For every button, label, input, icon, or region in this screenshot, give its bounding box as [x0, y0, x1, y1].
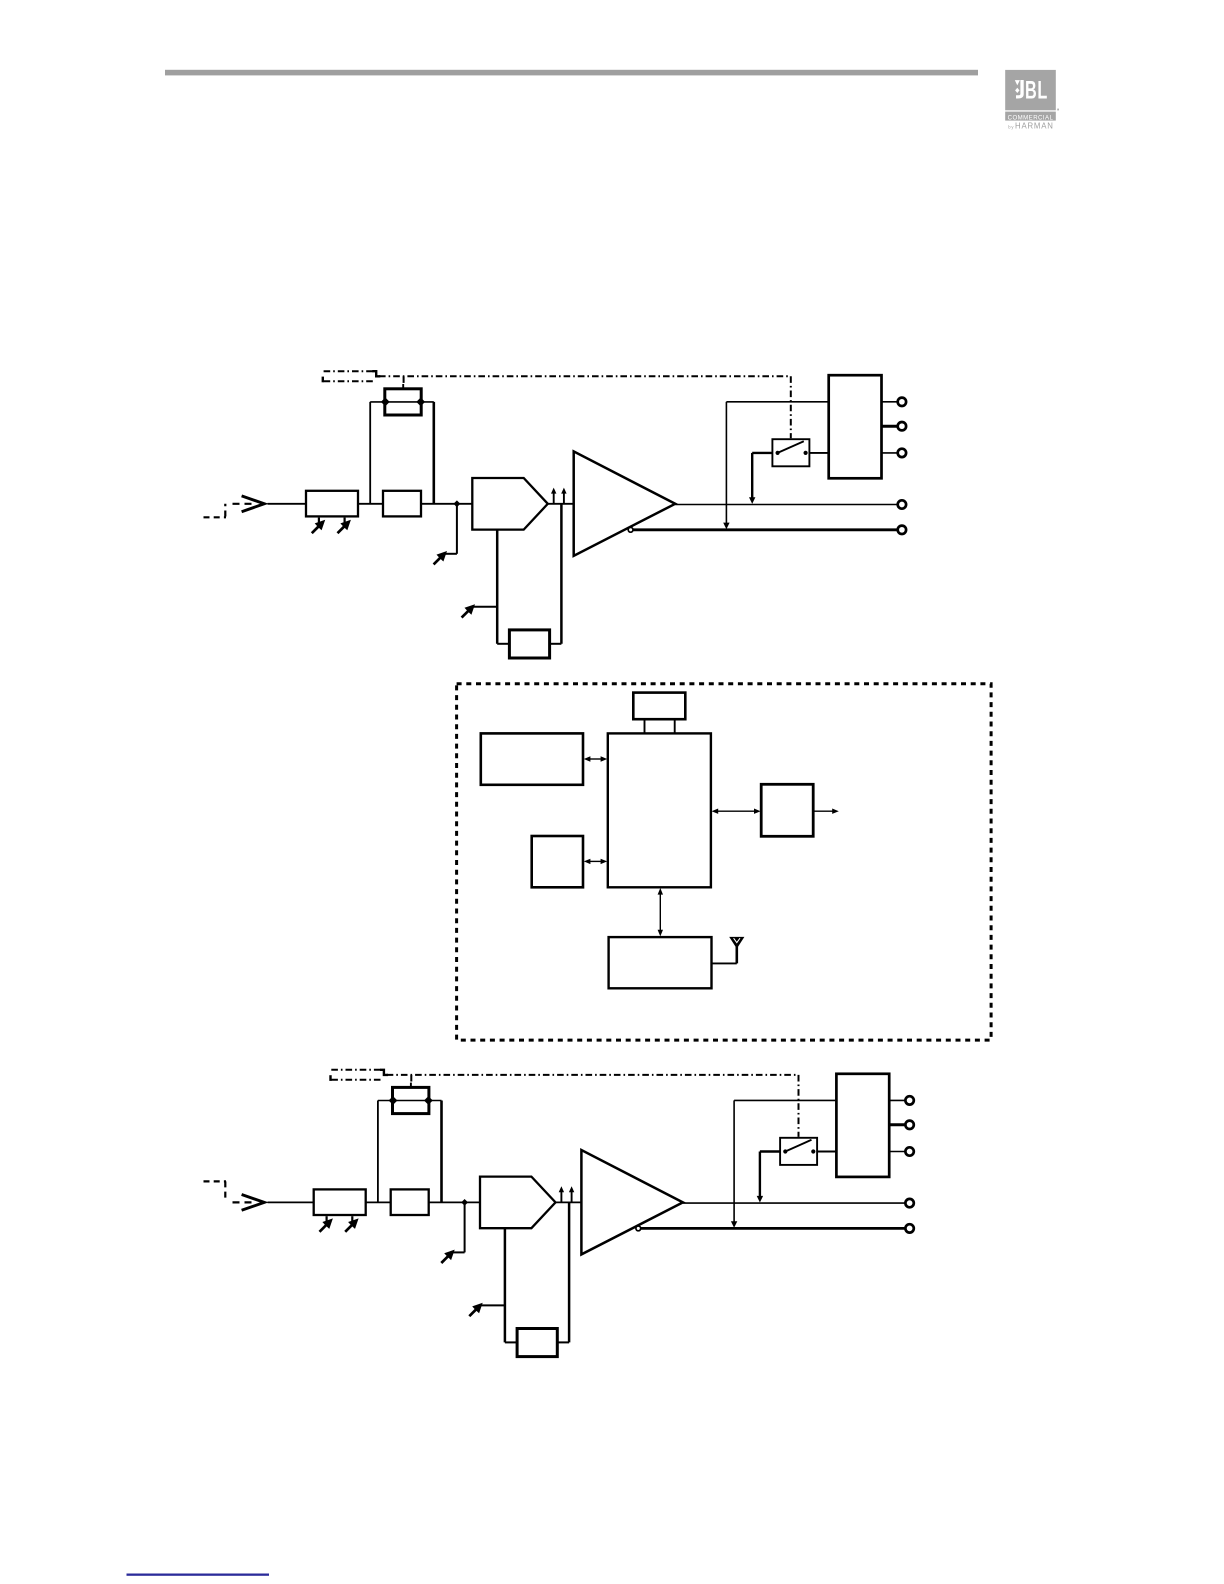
CH2 inverting output tap circle — [636, 1226, 641, 1231]
CH2 output terminal - circle — [905, 1224, 913, 1232]
JBL logo letter J — [1016, 80, 1024, 99]
memory bus arrow — [589, 758, 601, 760]
CH1 remote link loop bottom — [324, 380, 376, 382]
crystal box — [633, 693, 685, 720]
footer blue rule — [127, 1574, 270, 1576]
crystal wire right — [674, 719, 676, 733]
JBL logo square — [1005, 70, 1056, 110]
CH1 trim contact diamond left — [381, 398, 390, 407]
CH1 VCA bottom wire — [496, 530, 499, 644]
radio box — [609, 937, 712, 988]
CH1 junction dot — [454, 500, 461, 507]
eeprom box — [532, 836, 583, 887]
CH1 power amplifier triangle — [574, 451, 676, 555]
CH2 relay wire right — [817, 1151, 836, 1153]
eeprom bus arrow — [589, 860, 601, 862]
CH1 relay switch box — [772, 439, 809, 466]
main processor box — [608, 733, 711, 887]
CH1 wire filter-to-vca — [421, 503, 472, 505]
CH2 remote link branch to pot — [410, 1075, 412, 1083]
JBL logo exclamation dot — [1015, 88, 1019, 93]
CH1 bridge wire arrowhead — [723, 523, 729, 530]
CH2 threshold control wire — [481, 1304, 505, 1306]
io bus arrow — [717, 810, 755, 812]
CH2 wire filter-to-vca — [429, 1201, 480, 1203]
radio bus arrow — [659, 894, 661, 931]
CH2 remote link wire — [387, 1074, 799, 1076]
CH2 mute control wire — [464, 1202, 466, 1252]
CH2 threshold control arrow — [472, 1303, 483, 1314]
CH1 bridge wire — [726, 401, 828, 403]
CH2 feedback wire left — [505, 1341, 517, 1343]
CH1 input level block — [306, 491, 358, 517]
CH1 output terminal + circle — [898, 500, 906, 508]
CH1 filter block — [383, 491, 421, 517]
CH2 input wire — [268, 1201, 314, 1203]
CH1 output wire + — [675, 504, 897, 506]
CH2 VCA bottom wire — [504, 1228, 507, 1342]
CH2 filter block — [391, 1189, 429, 1215]
svg-text:byHARMAN: byHARMAN — [1008, 122, 1053, 131]
CH1 remote link loop top — [324, 370, 374, 372]
CH1 threshold control wire — [474, 606, 498, 608]
antenna stem — [735, 946, 738, 963]
svg-text:BL: BL — [1025, 76, 1048, 105]
CH2 level control stub 1 — [326, 1216, 328, 1222]
CH1 connector stub 1 — [882, 401, 898, 403]
CH1 input wire — [268, 503, 307, 505]
CH2 trim wiper wire — [378, 1100, 442, 1102]
CH1 trim wiper wire — [370, 401, 434, 403]
CH1 output wire - — [633, 528, 898, 531]
CH2 bypass wire left — [377, 1101, 379, 1203]
CH1 trim pot top stub — [402, 384, 404, 389]
CH2 trim contact diamond right — [424, 1096, 433, 1105]
CH1 output connector block — [829, 375, 882, 478]
antenna notch — [734, 938, 740, 942]
CH2 remote link corner — [380, 1070, 388, 1075]
CH2 connector stub 3 — [889, 1151, 905, 1153]
memory box — [481, 733, 583, 784]
crystal wire left — [644, 719, 646, 733]
antenna triangle — [729, 937, 744, 949]
CH1 relay wire right — [809, 452, 828, 454]
CH2 clip arrow 2 — [571, 1190, 573, 1202]
CH2 trim contact diamond left — [389, 1096, 398, 1105]
CH2 bridge wire arrowhead — [731, 1221, 737, 1228]
CH2 junction dot — [461, 1199, 468, 1206]
JBL logo registered mark — [1057, 109, 1059, 111]
CH2 relay contact right — [811, 1149, 815, 1153]
CH2 relay wire arrowhead — [757, 1196, 763, 1203]
CH1 wire vca-to-amp — [548, 503, 574, 505]
CH2 power amplifier triangle — [581, 1150, 683, 1254]
CH1 remote link loop tick — [322, 377, 324, 383]
CH1 connector terminal 1 — [898, 398, 906, 406]
JBL commercial bar — [1005, 112, 1056, 121]
CH1 remote link wire down — [790, 376, 792, 438]
CH2 relay lever — [785, 1140, 811, 1152]
CH1 wire level-to-filter — [358, 503, 383, 505]
CH2 connector terminal 3 — [905, 1147, 913, 1155]
CH2 remote link loop tick — [329, 1075, 331, 1081]
CH1 input arrowhead — [242, 496, 265, 512]
CH2 wire vca-to-amp — [556, 1201, 582, 1203]
CH1 inverting output tap circle — [628, 527, 633, 532]
CH2 VCA stage pentagon — [480, 1177, 556, 1229]
CH1 feedback wire left — [497, 643, 509, 645]
CH2 input level block — [314, 1189, 366, 1215]
io box — [761, 784, 813, 836]
CH2 level control stub 2 — [351, 1216, 353, 1222]
CH2 connector terminal 1 — [905, 1096, 913, 1104]
CH2 gain trim pot — [393, 1087, 429, 1113]
CH2 remote link loop bottom — [331, 1079, 383, 1081]
io out arrow — [813, 810, 833, 812]
CH1 level control stub 1 — [318, 518, 320, 524]
CH1 connector terminal 3 — [898, 449, 906, 457]
CH2 relay contact left — [783, 1149, 787, 1153]
antenna wire — [712, 962, 737, 964]
CH2 output connector block — [836, 1074, 889, 1177]
CH1 feedback wire right — [550, 643, 562, 645]
CH1 relay contact left — [776, 451, 780, 455]
CH2 bypass wire right — [440, 1101, 443, 1203]
JBL logo exclamation triangle — [1015, 80, 1020, 85]
CH2 relay wire to output — [760, 1150, 780, 1152]
CH1 trim contact diamond right — [416, 398, 425, 407]
CH1 bypass wire right — [432, 402, 435, 504]
CH1 relay wire arrowhead — [749, 497, 755, 504]
CH1 feedback detector block — [509, 630, 549, 658]
CH1 input source dashed wire — [204, 516, 227, 518]
CH2 feedback detector block — [517, 1329, 557, 1357]
CH1 level control stub 2 — [344, 518, 346, 524]
CH1 remote link corner — [372, 371, 380, 376]
CH1 bypass wire left — [369, 402, 371, 504]
CH1 mute control wire — [456, 504, 458, 554]
CH1 remote link branch to pot — [403, 376, 405, 384]
CH1 connector terminal 2 — [898, 422, 906, 430]
CH2 feedback wire right — [557, 1341, 569, 1343]
CH2 remote link wire down — [798, 1075, 800, 1137]
CH1 clip arrow 2 — [563, 492, 565, 504]
CH2 output wire - — [641, 1227, 906, 1230]
CH1 level control arrow 1 — [315, 520, 326, 531]
CH1 gain trim pot — [385, 389, 421, 415]
module dashed border — [457, 684, 992, 1040]
CH2 bridge wire — [734, 1099, 836, 1101]
CH1 connector stub 2 — [882, 425, 898, 428]
CH2 remote link loop top — [331, 1069, 381, 1071]
CH2 connector terminal 2 — [905, 1121, 913, 1129]
CH2 level control arrow 1 — [322, 1218, 333, 1229]
CH1 connector stub 3 — [882, 452, 898, 454]
CH1 level control arrow 2 — [340, 520, 351, 531]
CH2 trim pot top stub — [410, 1083, 412, 1088]
svg-text:COMMERCIAL: COMMERCIAL — [1008, 114, 1054, 121]
CH2 level control arrow 2 — [348, 1218, 359, 1229]
CH2 input source dashed wire — [204, 1180, 227, 1182]
CH1 relay contact right — [804, 451, 808, 455]
CH2 output terminal + circle — [905, 1199, 913, 1207]
CH2 clip arrow 1 — [560, 1190, 562, 1202]
CH1 clip arrow 1 — [553, 492, 555, 504]
CH2 relay switch box — [780, 1138, 817, 1165]
CH1 feedback wire up — [560, 504, 563, 644]
CH1 threshold control arrow — [465, 604, 476, 615]
header rule — [165, 70, 978, 76]
CH2 mute control arrow — [444, 1250, 455, 1261]
CH1 remote link wire — [379, 375, 791, 377]
CH2 connector stub 1 — [889, 1099, 905, 1101]
CH1 output terminal - circle — [898, 526, 906, 534]
CH1 relay lever — [778, 441, 804, 453]
CH1 mute control arrow — [437, 551, 448, 562]
CH2 input arrowhead — [242, 1195, 265, 1211]
CH1 relay wire to output — [752, 452, 772, 454]
CH2 connector stub 2 — [889, 1123, 905, 1126]
CH1 VCA stage pentagon — [472, 478, 548, 530]
CH2 feedback wire up — [568, 1202, 571, 1342]
CH2 output wire + — [683, 1202, 905, 1204]
CH2 wire level-to-filter — [366, 1201, 391, 1203]
